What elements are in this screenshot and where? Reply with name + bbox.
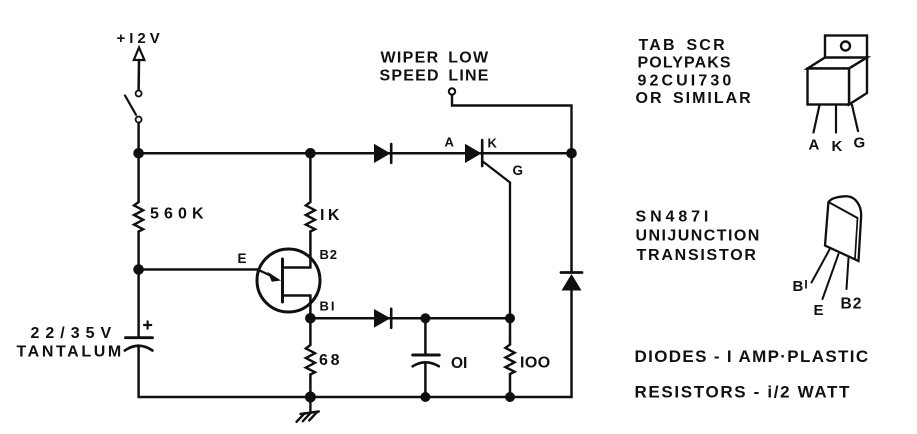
svg-text:G: G bbox=[854, 135, 866, 152]
svg-text:WIPER LOW: WIPER LOW bbox=[381, 50, 490, 67]
wire 1K to top rail bbox=[309, 153, 312, 202]
svg-text:B2: B2 bbox=[320, 247, 338, 262]
wire left rail to 560K bbox=[137, 153, 140, 202]
svg-text:E: E bbox=[814, 302, 824, 319]
svg-text:22/35V: 22/35V bbox=[31, 325, 118, 342]
SCR Q2 bbox=[465, 140, 510, 318]
svg-text:68: 68 bbox=[319, 352, 342, 369]
svg-text:G: G bbox=[513, 163, 524, 178]
svg-text:POLYPAKS: POLYPAKS bbox=[638, 55, 732, 72]
node ground junction bbox=[305, 392, 316, 403]
svg-text:+I2V: +I2V bbox=[117, 30, 164, 47]
wire B2 up to 1K bbox=[309, 232, 312, 268]
wire C2 top bbox=[424, 318, 427, 354]
resistor R1 560K bbox=[134, 202, 143, 232]
transistor Q1 unijunction bbox=[257, 249, 320, 312]
svg-text:TRANSISTOR: TRANSISTOR bbox=[637, 247, 758, 264]
svg-text:TANTALUM: TANTALUM bbox=[17, 344, 124, 361]
svg-text:RESISTORS - i/2 WATT: RESISTORS - i/2 WATT bbox=[635, 383, 852, 402]
node B1 junction bbox=[305, 313, 316, 324]
wire switch to top rail bbox=[137, 123, 140, 153]
wire 560K to E-node bbox=[137, 232, 140, 270]
wire B1 to 68 bbox=[309, 318, 312, 345]
svg-text:560K: 560K bbox=[150, 205, 209, 222]
node C2 top junction bbox=[420, 313, 430, 323]
svg-text:SPEED LINE: SPEED LINE bbox=[380, 68, 490, 85]
node 100 bottom junction bbox=[505, 392, 515, 402]
svg-text:OR SIMILAR: OR SIMILAR bbox=[636, 90, 753, 107]
node top-left junction bbox=[133, 148, 144, 159]
svg-text:OI: OI bbox=[451, 355, 467, 372]
wire right rail lower bbox=[570, 291, 573, 398]
wire E node to transistor bbox=[139, 268, 258, 271]
wire top rail bbox=[139, 152, 572, 155]
svg-text:E: E bbox=[238, 251, 247, 266]
wire gate node to 100 bbox=[509, 318, 512, 344]
svg-text:A: A bbox=[809, 137, 820, 154]
node C2 bottom junction bbox=[420, 392, 430, 402]
wire left rail to capacitor bbox=[137, 270, 140, 337]
svg-text:K: K bbox=[832, 138, 843, 155]
wire arrow to switch bbox=[137, 60, 140, 90]
wire B1 down bbox=[309, 296, 312, 319]
resistor R3 68 bbox=[306, 345, 315, 375]
node top rail / right rail junction bbox=[566, 148, 577, 159]
svg-text:A: A bbox=[445, 135, 455, 150]
resistor R2 1K bbox=[306, 202, 315, 232]
svg-text:BI: BI bbox=[320, 299, 337, 314]
svg-text:IK: IK bbox=[320, 207, 343, 224]
svg-text:K: K bbox=[488, 136, 498, 151]
wire 100 to bottom rail bbox=[509, 374, 512, 397]
resistor R4 100 bbox=[505, 345, 514, 375]
switch S1 bbox=[125, 91, 142, 123]
svg-text:TAB SCR: TAB SCR bbox=[639, 37, 727, 54]
svg-text:UNIJUNCTION: UNIJUNCTION bbox=[636, 228, 761, 245]
diode D2 bbox=[374, 309, 391, 328]
node E junction bbox=[133, 264, 144, 275]
wire B1 row bbox=[310, 317, 510, 320]
UJT package drawing bbox=[812, 196, 862, 299]
node gate/100 junction bbox=[505, 313, 515, 323]
diode D3 bbox=[561, 273, 582, 291]
wire wiper terminal down bbox=[452, 95, 572, 154]
svg-text:DIODES - I AMP·PLASTIC: DIODES - I AMP·PLASTIC bbox=[635, 347, 870, 366]
wiper line terminal bbox=[449, 88, 455, 94]
node top rail / 1K junction bbox=[305, 148, 316, 159]
wire right rail upper bbox=[570, 153, 573, 272]
svg-text:92CUI730: 92CUI730 bbox=[638, 73, 735, 90]
capacitor C1 22/35V tantalum bbox=[125, 321, 153, 350]
svg-text:SN487I: SN487I bbox=[636, 209, 713, 226]
svg-text:B2: B2 bbox=[841, 296, 863, 313]
+12V arrow terminal bbox=[134, 48, 145, 61]
capacitor C2 .01 bbox=[413, 355, 440, 366]
wire 68 to bottom rail bbox=[309, 375, 312, 398]
wire bottom rail bbox=[139, 396, 572, 399]
ground bbox=[297, 397, 319, 422]
SCR package drawing bbox=[808, 36, 868, 133]
svg-text:BI: BI bbox=[793, 278, 808, 296]
diode D1 bbox=[374, 144, 391, 163]
wire C2 bottom bbox=[424, 363, 427, 398]
svg-text:IOO: IOO bbox=[520, 355, 551, 372]
wire capacitor to bottom rail bbox=[137, 346, 140, 398]
